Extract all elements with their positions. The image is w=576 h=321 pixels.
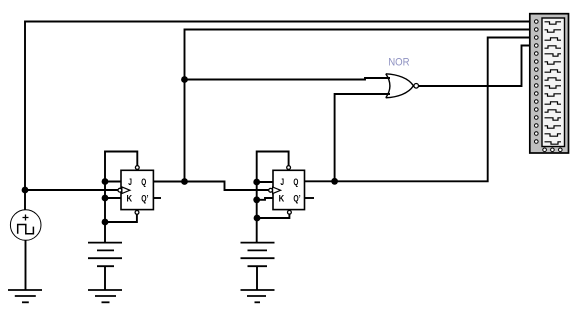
svg-text:J: J	[128, 177, 132, 188]
wire net NOR output to analyzer pin 4	[419, 46, 536, 87]
node Q1 junction on Q wire	[181, 178, 188, 185]
wire net CLK: source to FF1 clock	[25, 189, 118, 191]
logic analyzer bottom connectors	[543, 148, 562, 152]
wire FF1 J stub	[105, 181, 122, 183]
svg-text:Q’: Q’	[293, 194, 300, 205]
JK flip-flop U2	[269, 166, 305, 215]
wire FF2 CLR link	[257, 214, 289, 218]
logic analyzer traces	[545, 22, 562, 144]
ground for battery V2	[88, 290, 122, 302]
svg-text:K: K	[279, 194, 285, 205]
svg-text:NOR: NOR	[388, 56, 409, 68]
wire FF2 Q-prime stub	[305, 197, 315, 199]
wire net CLK: source to analyzer pin 1	[25, 22, 535, 191]
battery V3	[241, 243, 275, 290]
node Q2 junction at NOR branch	[331, 178, 338, 185]
battery V2	[88, 243, 122, 290]
node CLK junction at source	[22, 187, 29, 194]
wire net Q1: riser to analyzer pin 2	[185, 30, 536, 182]
wire net Q2: branch to NOR input B	[335, 94, 390, 181]
node FF2 K junction	[253, 196, 260, 203]
wire FF2 K stub	[257, 198, 274, 200]
node Q1 junction at NOR branch	[181, 76, 188, 83]
wire FF1 CLR link	[105, 214, 137, 222]
wire net Q1: FF1 Q to FF2 clock	[154, 182, 269, 191]
node FF2 J junction	[253, 179, 260, 186]
node FF1 CLR junction	[102, 219, 109, 226]
svg-text:J: J	[280, 177, 284, 188]
wire FF1 Q-prime stub	[154, 197, 162, 199]
ground for battery V3	[241, 290, 275, 302]
svg-text:Q: Q	[141, 177, 146, 188]
svg-text:Q’: Q’	[141, 194, 148, 205]
wire FF1 VCC rail with preset loop	[105, 152, 137, 243]
wire FF2 J stub	[257, 181, 274, 183]
ground for source	[8, 290, 42, 302]
svg-text:K: K	[127, 194, 133, 205]
wire FF1 K stub	[105, 197, 122, 199]
node FF1 K junction	[102, 195, 109, 202]
svg-text:Q: Q	[293, 177, 298, 188]
logic analyzer XLA1	[530, 14, 569, 153]
wire net Q2: FF2 Q to analyzer pin 3	[305, 38, 536, 182]
node FF2 CLR junction	[254, 215, 261, 222]
wire FF2 VCC rail with preset loop	[257, 152, 289, 244]
logic analyzer pins	[535, 20, 539, 144]
wire net Q1: branch to NOR input A	[185, 78, 391, 80]
JK flip-flop U1	[118, 166, 153, 215]
pulse source V1	[10, 190, 41, 290]
NOR gate U3	[386, 74, 419, 98]
node FF1 J junction	[102, 178, 109, 185]
